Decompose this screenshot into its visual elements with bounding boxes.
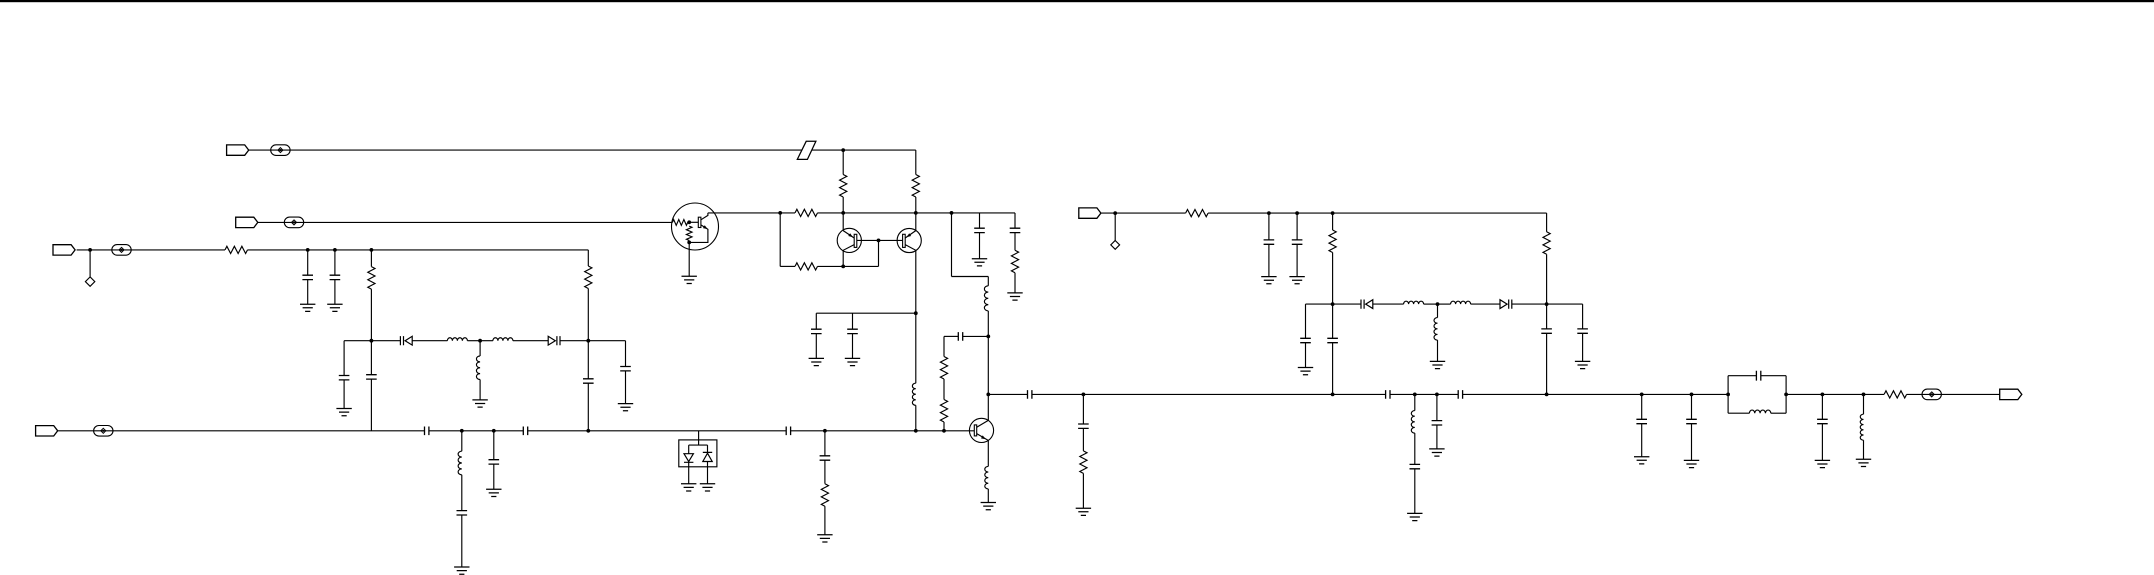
LC tank right lead bbox=[1785, 376, 1787, 414]
inductor L2 (shunt) bbox=[476, 356, 480, 380]
capacitor C26 (series) bbox=[1386, 390, 1390, 399]
wire bbox=[467, 340, 480, 342]
wire bbox=[707, 445, 709, 452]
wire bbox=[334, 250, 336, 275]
capacitor C21 bbox=[1292, 240, 1303, 244]
wire bbox=[89, 250, 91, 277]
Q2 base lead bbox=[879, 239, 902, 241]
node junction bbox=[914, 429, 918, 433]
Q3 emitter bbox=[977, 434, 989, 467]
inductor L3 bbox=[493, 338, 513, 341]
wire bbox=[1582, 333, 1584, 361]
wire bbox=[1821, 424, 1823, 461]
wire bbox=[698, 440, 700, 445]
capacitor C4 bbox=[339, 376, 350, 380]
transistor Q4 base bar bbox=[698, 217, 701, 227]
Q3 emitter arrow bbox=[981, 435, 986, 439]
wire bbox=[979, 213, 981, 228]
capacitor C19 bbox=[1078, 424, 1089, 428]
node junction bbox=[914, 211, 918, 215]
capacitor C10 bbox=[457, 511, 468, 515]
wire bbox=[587, 289, 589, 341]
node junction bbox=[1082, 393, 1086, 397]
resistor R10 (feedback bottom) bbox=[795, 263, 818, 270]
wire bbox=[1863, 440, 1865, 459]
wire bbox=[1305, 343, 1307, 368]
capacitor C16 bbox=[1010, 228, 1021, 232]
capacitor C23 bbox=[1300, 338, 1311, 342]
wire bbox=[842, 197, 844, 231]
inductor L1 bbox=[447, 338, 467, 341]
wire bbox=[1296, 244, 1298, 276]
wire bbox=[307, 280, 309, 305]
wire bbox=[1761, 375, 1786, 377]
Q2 collector bbox=[905, 245, 916, 384]
node junction bbox=[841, 265, 845, 269]
resistor R12 bbox=[940, 357, 947, 380]
wire bbox=[1114, 213, 1116, 240]
wire bbox=[708, 212, 795, 214]
current probe IP3 bbox=[112, 245, 131, 256]
wire bbox=[878, 240, 880, 266]
transistor Q1 circle bbox=[837, 228, 861, 252]
wire bbox=[815, 313, 817, 329]
wire bbox=[951, 213, 953, 277]
wire bbox=[1414, 433, 1416, 464]
ground bbox=[454, 567, 469, 574]
wire bbox=[334, 280, 336, 305]
wire bbox=[688, 462, 690, 484]
wire bbox=[987, 311, 989, 395]
capacitor C3 bbox=[620, 367, 631, 371]
transistor Q2 circle bbox=[897, 228, 921, 252]
resistor R9 (feedback top) bbox=[795, 209, 818, 216]
wire bbox=[1728, 375, 1756, 377]
wire bbox=[1373, 303, 1404, 305]
wire bbox=[479, 341, 481, 356]
ground bbox=[472, 400, 487, 407]
varactor diode D6 bbox=[1500, 300, 1512, 309]
wire bbox=[588, 340, 625, 342]
wire bbox=[1268, 213, 1270, 240]
wire bbox=[780, 265, 795, 267]
bias device circle U1 bbox=[672, 203, 719, 250]
node junction bbox=[841, 148, 845, 152]
node junction bbox=[1821, 393, 1825, 397]
inductor L4 bbox=[458, 451, 462, 475]
wire bbox=[1208, 212, 1547, 214]
capacitor C2 bbox=[330, 275, 341, 279]
wire bbox=[493, 431, 495, 460]
wire bbox=[1014, 213, 1016, 228]
capacitor C11 bbox=[489, 460, 500, 464]
resistor R4 bbox=[368, 267, 375, 290]
wire bbox=[370, 379, 372, 431]
wire bbox=[1014, 273, 1016, 293]
node junction bbox=[1545, 393, 1549, 397]
wire bbox=[1332, 253, 1334, 305]
wire bbox=[1268, 244, 1270, 276]
capacitor C6 bbox=[583, 379, 594, 383]
capacitor C18 (series) bbox=[1028, 390, 1032, 399]
ground bbox=[1289, 277, 1304, 284]
wire bbox=[779, 213, 781, 267]
ground bbox=[981, 503, 996, 510]
resistor R15 bbox=[1186, 210, 1209, 217]
wire bbox=[461, 515, 463, 567]
Q2 emitter bbox=[905, 231, 916, 238]
capacitor C12 bbox=[820, 456, 831, 460]
wire bbox=[429, 430, 523, 432]
wire bbox=[943, 379, 945, 400]
port P6 (RF output) bbox=[2000, 389, 2022, 399]
inductor L7 bbox=[1404, 301, 1424, 304]
wire bbox=[343, 341, 345, 376]
wire bbox=[479, 380, 481, 400]
node junction bbox=[1545, 302, 1549, 306]
wire bbox=[77, 249, 225, 251]
wire bbox=[587, 383, 589, 431]
top border bar bbox=[0, 0, 2154, 2]
ground bbox=[1298, 368, 1313, 375]
wire bbox=[689, 444, 708, 446]
wire bbox=[943, 422, 945, 431]
resistor R8 (U1 internal) bbox=[686, 226, 692, 240]
wire bbox=[1471, 303, 1500, 305]
wire bbox=[824, 431, 826, 456]
wire bbox=[987, 277, 989, 286]
wire bbox=[915, 197, 917, 231]
ground bbox=[1076, 508, 1091, 515]
wire bbox=[943, 336, 945, 356]
wire bbox=[987, 394, 989, 420]
inductor L_slash (AWR slash symbol) bbox=[797, 141, 816, 159]
wire bbox=[812, 149, 916, 151]
Q2 emitter arrow bbox=[906, 233, 911, 237]
wire bbox=[1728, 412, 1749, 414]
wire bbox=[816, 312, 916, 314]
resistor R1 (Q1 emitter feed) bbox=[840, 175, 847, 198]
node junction bbox=[586, 429, 590, 433]
wire bbox=[1414, 394, 1416, 410]
wire bbox=[625, 371, 627, 404]
wire bbox=[988, 393, 1027, 395]
inductor L11 (tank) bbox=[1749, 410, 1770, 413]
wire bbox=[852, 313, 854, 329]
capacitor C8 (series) bbox=[523, 427, 527, 436]
ground bbox=[809, 358, 824, 365]
wire bbox=[1582, 304, 1584, 329]
wire bbox=[258, 221, 673, 223]
node junction bbox=[370, 339, 374, 343]
capacitor C22 bbox=[1577, 329, 1588, 333]
wire bbox=[1821, 394, 1823, 419]
node junction bbox=[1331, 393, 1335, 397]
transistor Q3 circle bbox=[969, 418, 993, 442]
capacitor C17 (series) bbox=[958, 332, 962, 341]
node junction bbox=[1331, 302, 1335, 306]
wire bbox=[370, 250, 372, 267]
wire bbox=[1641, 424, 1643, 457]
node junction bbox=[1295, 211, 1299, 215]
port P5 (stage-2 bias input) bbox=[1079, 208, 1101, 218]
node junction bbox=[687, 220, 691, 224]
wire bbox=[698, 431, 700, 440]
wire bbox=[852, 334, 854, 359]
wire bbox=[915, 405, 917, 431]
wire bbox=[791, 430, 975, 432]
wire bbox=[1424, 303, 1438, 305]
ground bbox=[300, 304, 315, 311]
ground bbox=[700, 484, 715, 491]
capacitor C15 bbox=[974, 228, 985, 232]
wire bbox=[1547, 303, 1583, 305]
wire bbox=[480, 340, 493, 342]
wire bbox=[1512, 303, 1547, 305]
resistor R5 bbox=[585, 266, 592, 289]
wire bbox=[1691, 424, 1693, 461]
ground bbox=[1429, 449, 1444, 456]
wire bbox=[1771, 412, 1786, 414]
wire bbox=[1082, 394, 1084, 424]
Q4 emitter bbox=[689, 225, 708, 243]
capacitor C1 bbox=[302, 275, 313, 279]
ground bbox=[327, 304, 342, 311]
node junction bbox=[778, 211, 782, 215]
resistor R6 bbox=[821, 484, 828, 507]
wire bbox=[1546, 213, 1548, 232]
port P1 (top bias input) bbox=[227, 145, 249, 155]
wire bbox=[513, 340, 548, 342]
wire bbox=[344, 340, 400, 342]
node name diamond bbox=[1111, 241, 1120, 250]
node junction bbox=[492, 429, 496, 433]
capacitor C5 bbox=[366, 375, 377, 379]
wire bbox=[952, 276, 989, 278]
wire bbox=[587, 341, 589, 379]
resistor R18 bbox=[1884, 391, 1907, 398]
ground bbox=[1261, 277, 1276, 284]
Q1 base bar bbox=[854, 234, 857, 247]
wire bbox=[461, 431, 463, 451]
node junction bbox=[1690, 393, 1694, 397]
ground bbox=[972, 259, 987, 266]
node junction bbox=[1435, 393, 1439, 397]
ground bbox=[1430, 361, 1445, 368]
ground bbox=[1007, 293, 1022, 300]
node junction bbox=[460, 429, 464, 433]
wire bbox=[1390, 393, 1458, 395]
varactor diode D5 bbox=[1361, 300, 1373, 309]
node junction bbox=[586, 339, 590, 343]
wire bbox=[560, 340, 588, 342]
wire bbox=[1305, 304, 1307, 338]
wire bbox=[815, 334, 817, 359]
inductor L13 (Q2 collector) bbox=[912, 383, 915, 405]
varactor diode D2 bbox=[548, 336, 560, 345]
wire bbox=[461, 475, 463, 511]
Q1 emitter arrow bbox=[848, 233, 853, 237]
diode D4 (up) bbox=[703, 452, 712, 461]
ground bbox=[336, 409, 351, 416]
wire bbox=[1907, 393, 2000, 395]
wire bbox=[1463, 393, 1729, 395]
Q4 collector bbox=[701, 213, 708, 220]
wire bbox=[493, 464, 495, 489]
node name diamond bbox=[85, 277, 94, 286]
capacitor C27 (series) bbox=[1458, 390, 1462, 399]
node junction bbox=[823, 429, 827, 433]
inductor L10 bbox=[1411, 411, 1415, 434]
LC tank left lead bbox=[1727, 376, 1729, 414]
wire bbox=[979, 233, 981, 259]
wire bbox=[249, 149, 802, 151]
inductor L12 bbox=[1860, 414, 1863, 440]
wire bbox=[307, 250, 309, 275]
node junction bbox=[942, 429, 946, 433]
ground bbox=[1634, 457, 1649, 464]
ground bbox=[1815, 460, 1830, 467]
resistor R14 bbox=[1080, 451, 1087, 474]
limiter box U2 bbox=[679, 440, 717, 467]
resistor R13 bbox=[940, 400, 947, 423]
node junction bbox=[1267, 211, 1271, 215]
Q2 base bar bbox=[903, 234, 906, 247]
Q4 emitter arrow bbox=[703, 225, 708, 229]
wire bbox=[587, 250, 589, 266]
wire bbox=[824, 506, 826, 535]
Q1 emitter bbox=[843, 231, 854, 238]
wire bbox=[689, 221, 698, 223]
node junction bbox=[1331, 211, 1335, 215]
wire bbox=[1436, 394, 1438, 420]
wire bbox=[1332, 213, 1334, 230]
resistor R17 bbox=[1543, 232, 1550, 255]
wire bbox=[1101, 212, 1186, 214]
wire bbox=[1306, 303, 1362, 305]
ground bbox=[1684, 460, 1699, 467]
node junction bbox=[986, 335, 990, 339]
inductor L5 bbox=[984, 286, 988, 311]
wire bbox=[1332, 304, 1334, 338]
resistor R11 bbox=[1011, 250, 1018, 272]
wire bbox=[1032, 393, 1386, 395]
wire bbox=[625, 341, 627, 367]
node junction bbox=[333, 248, 337, 252]
diode D3 (down) bbox=[684, 454, 693, 463]
wire bbox=[915, 150, 917, 174]
wire bbox=[248, 249, 589, 251]
wire bbox=[688, 445, 690, 454]
wire bbox=[1436, 425, 1438, 449]
capacitor C14 bbox=[847, 329, 858, 333]
current probe IP4 bbox=[94, 426, 113, 437]
port P3 (stage-1 bias input) bbox=[53, 245, 75, 255]
wire bbox=[1332, 343, 1334, 395]
node junction bbox=[1413, 393, 1417, 397]
capacitor C33 bbox=[1817, 419, 1828, 423]
node junction bbox=[914, 311, 918, 315]
wire bbox=[824, 460, 826, 484]
capacitor C25 bbox=[1541, 329, 1552, 333]
wire bbox=[58, 430, 424, 432]
wire bbox=[1546, 304, 1548, 329]
ground bbox=[486, 489, 501, 496]
node junction bbox=[1862, 393, 1866, 397]
capacitor C7 (series) bbox=[425, 427, 429, 436]
Q1 base lead bbox=[857, 239, 880, 241]
node junction bbox=[1726, 393, 1730, 397]
inductor L9 bbox=[1451, 301, 1471, 304]
varactor diode D1 bbox=[400, 336, 412, 345]
node junction bbox=[1113, 211, 1117, 215]
wire bbox=[343, 380, 345, 409]
ground bbox=[1575, 361, 1590, 368]
capacitor C13 bbox=[811, 329, 822, 333]
node junction bbox=[1784, 393, 1788, 397]
wire bbox=[1863, 394, 1865, 414]
capacitor C32 (tank) bbox=[1756, 371, 1760, 381]
wire bbox=[528, 430, 787, 432]
node junction bbox=[306, 248, 310, 252]
wire bbox=[1546, 254, 1548, 304]
wire bbox=[370, 289, 372, 341]
wire bbox=[818, 212, 1016, 214]
node junction bbox=[1436, 302, 1440, 306]
wire bbox=[1437, 304, 1439, 318]
inductor L6 (emitter) bbox=[985, 466, 989, 489]
current probe IP5 bbox=[1922, 389, 1941, 400]
ground bbox=[817, 535, 832, 542]
ground bbox=[618, 404, 633, 411]
Q1 collector bbox=[843, 245, 854, 267]
node junction bbox=[877, 239, 881, 243]
wire bbox=[1082, 473, 1084, 508]
resistor R2 (Q2 emitter feed) bbox=[912, 175, 919, 198]
inductor L8 (shunt) bbox=[1434, 318, 1438, 341]
wire bbox=[1437, 340, 1439, 361]
capacitor C31 bbox=[1686, 419, 1697, 423]
Q3 collector bbox=[977, 420, 989, 427]
node junction bbox=[1640, 393, 1644, 397]
wire bbox=[1414, 469, 1416, 514]
wire bbox=[944, 335, 958, 337]
node junction bbox=[986, 393, 990, 397]
wire bbox=[707, 462, 709, 484]
port P4 (RF input) bbox=[36, 426, 58, 436]
current probe IP1 bbox=[271, 145, 290, 156]
Q3 base bar bbox=[974, 425, 976, 436]
resistor R3 bbox=[225, 246, 248, 253]
wire bbox=[963, 335, 989, 337]
wire bbox=[842, 150, 844, 174]
node junction bbox=[687, 241, 691, 245]
wire bbox=[1641, 394, 1643, 419]
capacitor C30 bbox=[1636, 419, 1647, 423]
current probe IP2 bbox=[284, 217, 303, 228]
wire bbox=[1691, 394, 1693, 419]
wire bbox=[412, 340, 447, 342]
capacitor C24 bbox=[1327, 338, 1338, 342]
port P2 (bias control input) bbox=[236, 217, 258, 227]
wire bbox=[1546, 333, 1548, 394]
node junction bbox=[88, 248, 92, 252]
capacitor C20 bbox=[1264, 240, 1275, 244]
ground bbox=[681, 484, 696, 491]
wire bbox=[370, 341, 372, 375]
capacitor C9 (series) bbox=[786, 427, 790, 436]
capacitor C29 bbox=[1432, 421, 1443, 425]
